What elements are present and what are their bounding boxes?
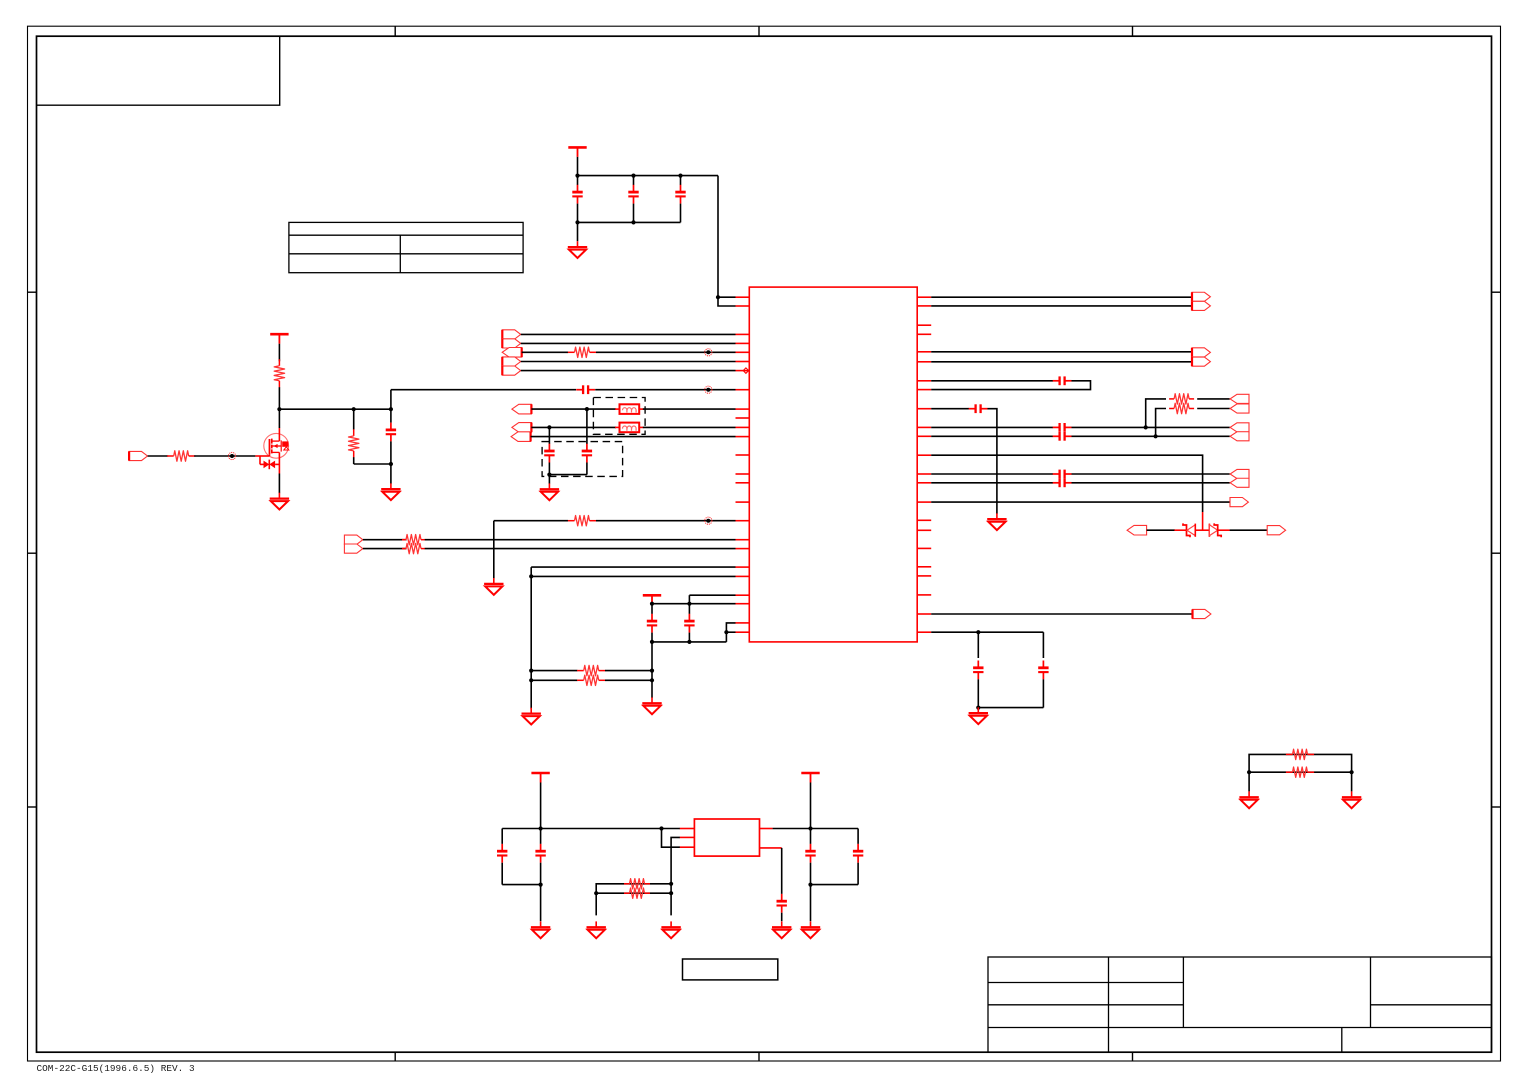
- wire riser to pins 623/632: [726, 623, 735, 642]
- wire C21 bottom: [810, 863, 812, 922]
- wire C17 riser: [1042, 632, 1044, 658]
- node C16 bottom: [976, 706, 980, 710]
- node adj top: [669, 882, 673, 886]
- wire C2 bottom lead: [633, 204, 635, 223]
- wire B2 to bead FB2: [531, 426, 616, 428]
- wire VCC4 caps left branch: [501, 829, 503, 844]
- wire parallel R upper: [531, 670, 577, 672]
- wire C5 to IC pin: [595, 389, 735, 391]
- ground GND1: [568, 241, 587, 258]
- wire A1 to IC: [521, 333, 736, 335]
- wire R2 bottom: [353, 457, 355, 464]
- wire pair lower to IC: [531, 575, 735, 577]
- wire C15 to arrow: [1072, 482, 1230, 484]
- no-connect diamond on A5 pin: [743, 368, 748, 373]
- wire caps bottom rail: [652, 641, 726, 643]
- junction ring on gate wire: [228, 452, 235, 459]
- wire VCC5 stem: [810, 783, 812, 829]
- ground GND14: [801, 921, 820, 938]
- wire C19 bottom: [540, 863, 542, 922]
- resistor R12: [624, 879, 650, 889]
- wire R5 rail: [494, 520, 568, 522]
- bead FB2 leads: [615, 426, 619, 428]
- wire to C12: [931, 426, 1053, 428]
- connector out A4: [502, 357, 520, 366]
- wire adj resistor upper: [596, 884, 671, 916]
- capacitor C17: [1038, 661, 1048, 680]
- wire riser top: [689, 594, 735, 596]
- resistor R15: [1286, 767, 1314, 777]
- wire C4 top lead: [390, 409, 392, 422]
- connector out K4: [1230, 498, 1248, 507]
- wire C21 top: [810, 829, 812, 844]
- power symbol VCC2: [270, 334, 288, 344]
- node adj bottom: [669, 891, 673, 895]
- wire C18 bottom: [501, 863, 503, 885]
- wire C14 to arrow: [1072, 473, 1230, 475]
- node C4 top: [389, 407, 393, 411]
- capacitor C5: [576, 385, 595, 394]
- node riser 1: [1144, 425, 1148, 429]
- ferrite bead FB1: [620, 404, 640, 414]
- bead FB1 leads: [615, 408, 619, 410]
- wire drain node rail: [279, 408, 391, 410]
- regulator U2 pin4 lead: [760, 828, 773, 830]
- node cap bank bottom 2: [631, 220, 635, 224]
- wire R5 to IC: [596, 520, 736, 522]
- wire R1 to drain node: [278, 387, 280, 409]
- node C4 bottom: [389, 462, 393, 466]
- wire C11 to corner: [988, 409, 997, 514]
- capacitor C19: [535, 844, 545, 863]
- node R pair left: [1247, 770, 1251, 774]
- diode D2 schottky left: [1174, 523, 1209, 537]
- ferrite bead FB2: [620, 423, 640, 433]
- IC U1 body: [749, 287, 917, 642]
- wire R9 right: [605, 679, 652, 681]
- title block: [988, 957, 1492, 1052]
- wire C16 bottom: [977, 679, 979, 707]
- connector in B3: [511, 432, 530, 442]
- wire reg pin2 jog: [671, 837, 680, 915]
- wire C2 top lead: [633, 176, 635, 185]
- node bead wire 2: [547, 425, 551, 429]
- ground GND16: [1342, 791, 1361, 808]
- capacitor C22: [853, 844, 863, 863]
- wire VCC2 to R1: [278, 344, 280, 362]
- connector out D2: [344, 544, 362, 553]
- node lower pair: [529, 574, 533, 578]
- wire to C13: [931, 435, 1053, 437]
- node pin1-2 junction: [716, 295, 720, 299]
- wire to C14: [931, 473, 1053, 475]
- wire IC pin2 jog: [718, 297, 736, 306]
- ground GND10: [531, 921, 550, 938]
- ground GND5: [484, 578, 503, 595]
- junction ring on cap wire: [705, 386, 712, 393]
- node parallel R bottom right: [650, 678, 654, 682]
- wire F2 top lead: [586, 409, 588, 444]
- ground GND12: [661, 921, 680, 938]
- wire to ground: [493, 521, 495, 579]
- wire pair lower: [1249, 771, 1352, 773]
- connector in B2: [512, 423, 532, 433]
- ground GND9: [969, 707, 988, 724]
- wire C12 to arrow: [1072, 426, 1230, 428]
- node cap bank bottom 1: [575, 220, 579, 224]
- connector out K6: [1267, 526, 1285, 535]
- ground GND3: [381, 483, 400, 500]
- wire VCC3 stem: [651, 604, 653, 605]
- resistor R10: [1169, 394, 1194, 404]
- regulator U2 body: [694, 819, 759, 856]
- capacitor C2: [628, 185, 638, 204]
- connector in B1: [512, 404, 532, 414]
- wire right to ground: [1351, 772, 1353, 791]
- wire pin 455 to clamp: [931, 455, 1202, 512]
- capacitor C3: [675, 185, 685, 204]
- capacitor C11: [969, 404, 988, 413]
- power symbol VCC4: [531, 773, 549, 783]
- capacitor C10: [1053, 376, 1072, 385]
- wire riser 2: [1156, 409, 1166, 437]
- node C21 bottom: [808, 883, 812, 887]
- wire riser to pin: [688, 595, 690, 604]
- node bead wire 1: [585, 407, 589, 411]
- connector in K1a: [1230, 394, 1249, 403]
- wire left to ground: [1248, 772, 1250, 791]
- wire to J2 upper: [931, 351, 1192, 353]
- wire E1 top lead: [651, 604, 653, 614]
- wire C3 bottom lead: [680, 204, 682, 223]
- power symbol VCC1: [568, 147, 586, 157]
- dashed box cap filter: [542, 442, 623, 477]
- node R pair right: [1350, 770, 1354, 774]
- connector out J2a: [1192, 348, 1210, 357]
- wire B3 to IC: [531, 436, 736, 438]
- wire to K4: [931, 501, 1230, 503]
- wire A5 to IC: [521, 370, 736, 372]
- connector in K2a: [1230, 423, 1249, 432]
- wire E2 bottom lead: [688, 633, 690, 642]
- wire reg out rail: [773, 828, 859, 830]
- node VCC3: [650, 602, 654, 606]
- wire cap block bottom rail: [549, 474, 587, 476]
- resistor R4: [568, 347, 596, 357]
- wire clamp to K6: [1230, 529, 1268, 531]
- wire adj resistor lower: [596, 892, 671, 894]
- wire F1 bottom: [548, 463, 550, 475]
- node reg out: [808, 826, 812, 830]
- wire reg gnd jog: [662, 829, 681, 848]
- wire R7 to IC: [425, 548, 736, 550]
- resistor R6: [402, 535, 425, 545]
- node drain: [277, 407, 281, 411]
- power symbol VCC5: [801, 773, 819, 783]
- wire R4 to IC: [596, 351, 736, 353]
- wire pin5 down: [781, 848, 783, 894]
- capacitor C7: [582, 444, 592, 463]
- capacitor C9: [684, 614, 694, 633]
- wire to J1 lower: [931, 305, 1192, 307]
- connector out A1: [502, 330, 520, 339]
- wire A2 to IC: [521, 342, 736, 344]
- ground GND4: [540, 483, 559, 500]
- regulator U2 pin1 lead: [680, 828, 695, 830]
- wire C16 top lead: [977, 632, 979, 658]
- wire B1 to bead FB1: [531, 408, 616, 410]
- wire R2 to C4 bottom: [354, 463, 391, 465]
- wire left vertical: [530, 567, 532, 709]
- wire A3 to resistor: [522, 351, 568, 353]
- wire R11 to arrow: [1197, 408, 1230, 410]
- wire cap loop top: [931, 380, 1053, 382]
- node riser 2: [1154, 434, 1158, 438]
- ground GND7: [642, 697, 661, 714]
- wire D1: [363, 539, 407, 541]
- capacitor C21: [805, 844, 815, 863]
- node pin 632 tap: [724, 630, 728, 634]
- wire D2: [363, 548, 407, 550]
- wire clamp red riser: [1202, 512, 1204, 530]
- wire to J2 lower: [931, 361, 1192, 363]
- wire caps gnd rail: [978, 707, 1043, 709]
- wire to ground: [548, 475, 550, 484]
- node cap bank top 3: [678, 174, 682, 178]
- wire VCC1 stem: [577, 157, 579, 176]
- dashed box bead filter: [593, 398, 645, 435]
- wire F2 bottom: [586, 463, 588, 475]
- capacitor C6: [544, 444, 554, 463]
- node cap bank top 1: [575, 174, 579, 178]
- connector in A3: [502, 348, 522, 358]
- wire pin 632: [726, 631, 735, 633]
- wire C19 top: [540, 829, 542, 844]
- revision table: [289, 222, 523, 272]
- spare box: [683, 959, 778, 980]
- ground GND8: [987, 513, 1006, 530]
- wire R10 to arrow: [1197, 398, 1230, 400]
- ground GND11: [587, 921, 606, 938]
- connector in K2b: [1230, 432, 1249, 441]
- wire E2 top lead: [688, 604, 690, 614]
- capacitor C18: [497, 844, 507, 863]
- wire R6 to IC: [425, 539, 736, 541]
- wire pin1: [718, 296, 736, 298]
- capacitor C8: [647, 614, 657, 633]
- wire to ground: [577, 222, 579, 241]
- svg-text:COM-22C-G15(1996.6.5) REV. 3: COM-22C-G15(1996.6.5) REV. 3: [37, 1063, 195, 1074]
- node cap bank top 2: [631, 174, 635, 178]
- connector in K3b: [1230, 478, 1249, 487]
- wire F1 top lead: [548, 427, 550, 444]
- capacitor C14: [1053, 470, 1072, 479]
- connector in K1b: [1230, 404, 1249, 413]
- wire VCC3 rail: [652, 603, 736, 605]
- ground GND6: [522, 708, 541, 725]
- wire C1 bottom lead: [577, 204, 579, 223]
- capacitor C1: [572, 185, 582, 204]
- wire C22 branch: [857, 829, 859, 844]
- wire C1 top lead: [577, 176, 579, 185]
- connector out J1a: [1192, 292, 1210, 301]
- diode D3 schottky right: [1209, 523, 1229, 537]
- node adj left: [594, 891, 598, 895]
- ground GND15: [1239, 791, 1258, 808]
- node parallel R bottom left: [529, 678, 533, 682]
- node C16 top: [976, 630, 980, 634]
- capacitor C16: [973, 661, 983, 680]
- resistor R3 gate: [167, 451, 195, 461]
- wire drain node to cap wire: [390, 390, 392, 410]
- resistor R7: [402, 543, 425, 553]
- capacitor C20: [777, 894, 787, 913]
- ground GND13: [772, 921, 791, 938]
- regulator U2 pin5 lead: [760, 847, 782, 849]
- resistor R5: [568, 516, 596, 526]
- resistor R11: [1169, 403, 1194, 413]
- wire riser 1: [1146, 399, 1166, 428]
- wire C20 bottom: [781, 913, 783, 922]
- connector out J1b: [1192, 301, 1210, 310]
- wire to R2: [353, 409, 355, 429]
- border tick marks: [394, 26, 396, 36]
- wire reg input rail: [502, 828, 680, 830]
- top-left reference box: [37, 36, 280, 105]
- wire cap bank bottom rail: [578, 221, 681, 223]
- wire FB2 to IC: [643, 426, 736, 428]
- wire C22 bottom: [857, 863, 859, 885]
- capacitor C15: [1053, 478, 1072, 487]
- wire pair upper to IC: [531, 566, 735, 568]
- node reg in: [539, 826, 543, 830]
- resistor R13: [624, 888, 650, 898]
- wire to J1 upper: [931, 296, 1192, 298]
- wire E1 bottom lead: [651, 633, 653, 698]
- wire pair upper: [1249, 754, 1352, 772]
- junction ring on A3 wire: [705, 349, 712, 356]
- wire top cap bank rail: [578, 175, 719, 177]
- resistor R14: [1286, 749, 1314, 759]
- power symbol VCC3: [643, 595, 661, 605]
- wire VCC4 stem: [540, 783, 542, 829]
- connector out J2b: [1192, 357, 1210, 366]
- wire cap loop: [931, 381, 1090, 390]
- connector in K3a: [1230, 469, 1249, 478]
- node parallel R top left: [529, 669, 533, 673]
- wire FB1 to IC: [643, 408, 736, 410]
- node R2 top: [352, 407, 356, 411]
- transistor Q1 MOSFET: [255, 428, 288, 474]
- node cap block gnd: [547, 473, 551, 477]
- junction ring on R5 wire: [705, 517, 712, 524]
- wire to C11: [931, 408, 969, 410]
- wire parallel R lower: [531, 679, 577, 681]
- wire source to ground: [278, 474, 280, 494]
- resistor R8: [577, 665, 605, 675]
- wire A4 to IC: [521, 361, 736, 363]
- wire to C15: [931, 482, 1053, 484]
- connector input gate: [129, 451, 147, 460]
- wire R8 right: [605, 670, 652, 672]
- wire caps bottom rail: [502, 884, 540, 886]
- node caps bottom 2: [687, 640, 691, 644]
- capacitor C13: [1053, 432, 1072, 441]
- wire pin 632 right: [931, 631, 1043, 633]
- regulator U2 pin3 lead: [680, 846, 695, 848]
- connector out A2: [502, 339, 520, 348]
- node caps bottom 1: [650, 640, 654, 644]
- resistor R2: [349, 429, 359, 457]
- wire gate input: [148, 455, 169, 457]
- wire C3 top lead: [680, 176, 682, 185]
- ground GND2: [270, 493, 289, 510]
- wire to series cap C5: [391, 389, 576, 391]
- node parallel R top right: [650, 669, 654, 673]
- connector out J3: [1193, 609, 1211, 618]
- wire C17 bottom: [1042, 679, 1044, 707]
- wire drain: [278, 409, 280, 428]
- wire out caps bottom rail: [811, 884, 859, 886]
- IC U1 right pin stubs: [917, 297, 931, 632]
- regulator U2 pin2 lead: [680, 836, 695, 838]
- node cap E2 top: [687, 602, 691, 606]
- resistor R1: [274, 359, 284, 387]
- wire C13 to arrow: [1072, 435, 1230, 437]
- IC U1 left pin stubs: [736, 297, 750, 632]
- wire to J3: [931, 613, 1192, 615]
- diode D1 gate protection zener: [260, 456, 279, 469]
- connector out D1: [344, 535, 362, 544]
- wire C4 bottom lead: [390, 441, 392, 483]
- connector out A5: [502, 366, 520, 375]
- wire R3 to gate: [194, 455, 255, 457]
- capacitor C4: [386, 423, 396, 442]
- node reg pin1: [659, 826, 663, 830]
- wire K5 to diode: [1147, 529, 1175, 531]
- node C19 bottom: [539, 883, 543, 887]
- resistor R9: [577, 675, 605, 685]
- connector in K5: [1127, 525, 1147, 535]
- capacitor C12: [1053, 423, 1072, 432]
- wire to IC pin 1: [717, 176, 719, 298]
